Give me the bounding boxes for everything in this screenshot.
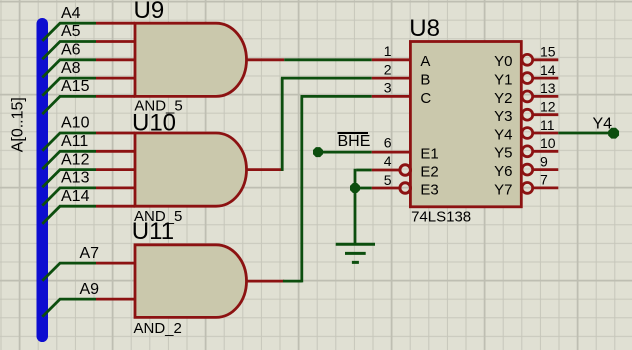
svg-text:Y5: Y5 bbox=[494, 145, 512, 162]
svg-text:AND_2: AND_2 bbox=[134, 320, 182, 337]
and-gate U9 input pins bbox=[96, 23, 135, 96]
svg-text:A7: A7 bbox=[80, 245, 100, 262]
U8 pin E2 (4) with bubble bbox=[372, 169, 399, 172]
svg-text:C: C bbox=[420, 90, 431, 107]
U8 pin Y1 (14) bbox=[522, 73, 533, 84]
svg-text:A9: A9 bbox=[80, 281, 100, 298]
wire A7 bus entry bbox=[42, 263, 96, 281]
svg-text:10: 10 bbox=[540, 135, 556, 151]
wire U11 output to U8 pin C bbox=[246, 280, 284, 283]
svg-text:12: 12 bbox=[540, 99, 556, 115]
svg-text:13: 13 bbox=[540, 80, 556, 96]
svg-text:A13: A13 bbox=[61, 170, 90, 187]
svg-text:Y0: Y0 bbox=[494, 53, 512, 70]
bus A[0..15] bbox=[37, 18, 49, 342]
U8 pin Y7 (7) bbox=[522, 183, 533, 194]
svg-text:15: 15 bbox=[540, 44, 556, 60]
svg-text:A12: A12 bbox=[61, 151, 90, 168]
wire ground net vertical bbox=[354, 169, 357, 244]
svg-text:Y3: Y3 bbox=[494, 108, 512, 125]
svg-text:A5: A5 bbox=[61, 23, 81, 40]
svg-text:74LS138: 74LS138 bbox=[411, 208, 471, 225]
and-gate U10 input pins bbox=[96, 133, 135, 206]
and-gate U11 body bbox=[135, 245, 246, 318]
svg-text:2: 2 bbox=[384, 61, 392, 77]
U8 pin Y2 (13) bbox=[522, 91, 533, 102]
wire A11 bus entry bbox=[42, 151, 96, 169]
svg-text:3: 3 bbox=[384, 80, 392, 96]
svg-text:E1: E1 bbox=[420, 146, 438, 163]
svg-text:9: 9 bbox=[540, 153, 548, 169]
svg-text:A10: A10 bbox=[61, 115, 90, 132]
junction dot on ground net bbox=[350, 183, 360, 193]
wire A4 bus entry bbox=[42, 23, 96, 41]
svg-text:B: B bbox=[420, 72, 430, 89]
ground symbol bbox=[336, 244, 375, 262]
svg-text:Y4: Y4 bbox=[593, 116, 613, 133]
wire A6 bus entry bbox=[42, 60, 96, 78]
svg-text:14: 14 bbox=[540, 62, 556, 78]
U8 pin A (1) bbox=[372, 58, 410, 61]
and-gate U9 body bbox=[135, 23, 246, 96]
svg-text:Y2: Y2 bbox=[494, 90, 512, 107]
U8 pin Y5 (10) bbox=[522, 146, 533, 157]
svg-text:E2: E2 bbox=[420, 163, 438, 180]
svg-text:BHE: BHE bbox=[338, 133, 371, 150]
svg-text:4: 4 bbox=[384, 153, 392, 169]
wire A14 bus entry bbox=[42, 206, 96, 224]
wire U9 output to U8 pin A bbox=[247, 58, 285, 61]
U8 pin Y3 (12) bbox=[522, 109, 533, 120]
U8 pin Y6 (9) bbox=[522, 164, 533, 175]
svg-text:A: A bbox=[420, 53, 430, 70]
svg-text:Y4: Y4 bbox=[494, 126, 512, 143]
svg-text:A4: A4 bbox=[61, 5, 81, 22]
U8 pin E1 (6) bbox=[372, 151, 410, 154]
wire U10 output to U8 pin B bbox=[247, 168, 284, 171]
wire Y4 output bbox=[558, 132, 613, 135]
svg-text:7: 7 bbox=[540, 172, 548, 188]
wire A9 bus entry bbox=[42, 299, 96, 317]
svg-text:A15: A15 bbox=[61, 78, 90, 95]
wire A12 bus entry bbox=[42, 170, 96, 188]
terminal Y4 bbox=[608, 128, 619, 139]
wire A8 bus entry bbox=[42, 78, 96, 96]
wire A10 bus entry bbox=[42, 133, 96, 151]
svg-text:U10: U10 bbox=[132, 110, 176, 137]
chip U8 body bbox=[410, 42, 521, 207]
wire A5 bus entry bbox=[42, 42, 96, 60]
wire E2 from ground net bbox=[356, 169, 372, 172]
svg-text:U8: U8 bbox=[409, 15, 440, 42]
svg-text:Y1: Y1 bbox=[494, 72, 512, 89]
U8 pin E3 (5) with bubble bbox=[372, 187, 399, 190]
svg-text:Y6: Y6 bbox=[494, 163, 512, 180]
and-gate U11 input pins bbox=[96, 263, 135, 299]
svg-text:U9: U9 bbox=[134, 0, 165, 24]
svg-text:A[0..15]: A[0..15] bbox=[10, 97, 27, 152]
wire BHE to E1 bbox=[318, 151, 372, 154]
U8 pin C (3) bbox=[372, 95, 410, 98]
svg-text:A6: A6 bbox=[61, 42, 81, 59]
svg-text:U11: U11 bbox=[132, 218, 174, 245]
U8 pin Y0 (15) bbox=[522, 54, 533, 65]
wire A15 bus entry bbox=[42, 96, 96, 114]
svg-text:1: 1 bbox=[384, 43, 392, 59]
and-gate U10 body bbox=[135, 133, 246, 206]
svg-text:6: 6 bbox=[384, 134, 392, 150]
svg-text:E3: E3 bbox=[420, 181, 438, 198]
svg-text:A11: A11 bbox=[61, 133, 88, 150]
terminal BHE bbox=[313, 147, 323, 157]
U8 pin Y4 (11) bbox=[522, 128, 533, 139]
svg-text:A14: A14 bbox=[61, 188, 90, 205]
svg-text:Y7: Y7 bbox=[494, 181, 512, 198]
svg-text:A8: A8 bbox=[61, 60, 81, 77]
svg-text:5: 5 bbox=[384, 172, 392, 188]
U8 pin B (2) bbox=[372, 77, 410, 80]
svg-text:11: 11 bbox=[540, 117, 555, 133]
wire E3 from ground net bbox=[355, 187, 372, 190]
wire A13 bus entry bbox=[42, 188, 96, 206]
